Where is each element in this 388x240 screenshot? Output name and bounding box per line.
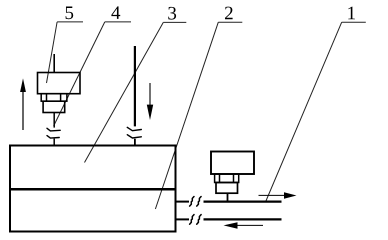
label 3 digit	[168, 7, 176, 20]
label 2 digit	[225, 7, 233, 20]
upper outlet pipe stub	[177, 201, 190, 203]
leader from label 5 to nozzle body	[47, 22, 58, 83]
right device flange band	[215, 174, 239, 183]
nozzle lower box	[43, 101, 65, 112]
right device body (top rect)	[211, 152, 254, 175]
label 2 underline	[218, 21, 242, 23]
label 1 digit	[348, 7, 355, 20]
flange inner line b	[60, 94, 62, 102]
stream break mark 2	[47, 136, 59, 139]
upper pipe break mark 1	[190, 197, 194, 207]
label 5 digit	[66, 7, 74, 20]
nozzle inlet stub	[53, 54, 55, 73]
label 4 underline	[105, 21, 131, 23]
label 1 underline	[342, 21, 366, 23]
tank outline	[10, 146, 176, 232]
leader from label 1 to outlet pipe	[266, 22, 342, 202]
right device stem	[227, 193, 229, 201]
nozzle stream upper segment	[53, 113, 55, 128]
feed pipe break mark 1	[127, 127, 141, 130]
label 3 underline	[163, 21, 186, 23]
right flange inner line b	[233, 174, 235, 183]
nozzle body (left device top rect)	[38, 73, 81, 94]
feed pipe lower segment	[134, 139, 136, 146]
upper outlet pipe	[204, 201, 282, 203]
nozzle stream lower segment	[53, 139, 55, 146]
vertical feed pipe	[134, 46, 136, 126]
feed pipe break mark 2	[127, 135, 141, 138]
lower return pipe stub	[177, 218, 190, 220]
nozzle flange band	[41, 94, 67, 102]
label 5 underline	[57, 21, 83, 23]
upper pipe break mark 2	[197, 197, 201, 207]
tank divider	[9, 188, 177, 191]
right device lower box	[216, 183, 238, 194]
lower pipe break mark 2	[197, 215, 201, 225]
down arrow (feed direction)	[147, 83, 153, 120]
leader from label 3 into tank	[85, 22, 164, 162]
up arrow (left of nozzle)	[20, 78, 26, 130]
label 4 digit	[111, 6, 120, 19]
lower return pipe	[204, 218, 282, 220]
flow arrow right (thin)	[259, 192, 297, 199]
lower pipe break mark 1	[190, 215, 194, 225]
stream break mark 1	[47, 128, 60, 131]
flow arrow left (thin)	[224, 222, 264, 229]
flange inner line a	[46, 94, 48, 102]
right flange inner line a	[219, 174, 221, 183]
leader from label 2 into tank lower section	[155, 22, 218, 209]
leader from label 4 to nozzle tip	[54, 22, 105, 126]
